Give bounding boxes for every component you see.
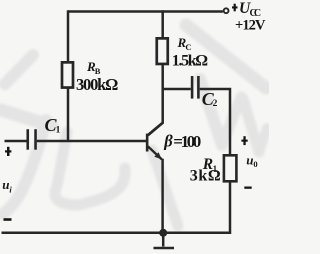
minus input xyxy=(4,218,12,221)
wire C2 right lead / output branch xyxy=(200,89,230,156)
transistor Q1 xyxy=(147,123,162,159)
label beta=100 xyxy=(163,132,201,151)
label u0 xyxy=(246,153,257,169)
resistor R1 xyxy=(224,155,237,181)
resistor RC xyxy=(157,38,168,64)
wire input lead xyxy=(5,140,27,143)
wire C2 left lead xyxy=(163,88,191,91)
svg-text:1.5kΩ: 1.5kΩ xyxy=(172,52,208,69)
resistor RB xyxy=(62,62,73,87)
label RC xyxy=(177,35,192,52)
wire emitter xyxy=(161,159,164,233)
wire RC branch top xyxy=(161,10,164,38)
svg-text:β: β xyxy=(163,132,173,151)
ground xyxy=(154,233,175,248)
label ui xyxy=(2,177,12,194)
junction dot xyxy=(159,229,167,237)
wire VCC rail xyxy=(68,10,223,13)
capacitor C2 xyxy=(192,76,198,99)
wire R1 bottom xyxy=(164,181,230,233)
minus output xyxy=(244,187,251,189)
plus input xyxy=(5,147,11,156)
label C2 xyxy=(202,89,218,109)
label C1 xyxy=(45,115,61,136)
svg-text:C: C xyxy=(185,42,191,52)
svg-text:i: i xyxy=(9,184,12,194)
plus output xyxy=(241,136,247,145)
svg-text:=100: =100 xyxy=(173,132,201,151)
wire base xyxy=(37,140,146,143)
wire ground rail xyxy=(2,232,164,235)
label +UCC xyxy=(232,0,261,19)
svg-text:2: 2 xyxy=(213,99,218,109)
svg-text:+12V: +12V xyxy=(235,17,266,33)
svg-text:1: 1 xyxy=(56,126,61,136)
label RB xyxy=(86,59,101,76)
svg-text:3kΩ: 3kΩ xyxy=(190,168,221,185)
wire RB to base node xyxy=(67,89,70,142)
svg-text:300kΩ: 300kΩ xyxy=(76,75,118,94)
terminal +UCC xyxy=(224,8,229,13)
svg-text:0: 0 xyxy=(253,159,257,169)
capacitor C1 xyxy=(28,129,36,150)
wire collector xyxy=(148,65,163,136)
label R1 xyxy=(202,156,218,174)
wire RB branch top xyxy=(67,10,70,63)
